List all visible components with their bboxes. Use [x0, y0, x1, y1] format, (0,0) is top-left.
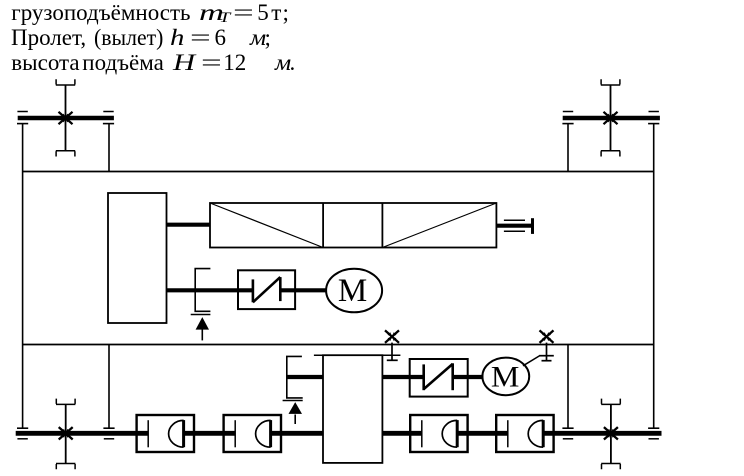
- svg-text:M: M: [491, 360, 520, 393]
- svg-text:M: M: [338, 273, 367, 309]
